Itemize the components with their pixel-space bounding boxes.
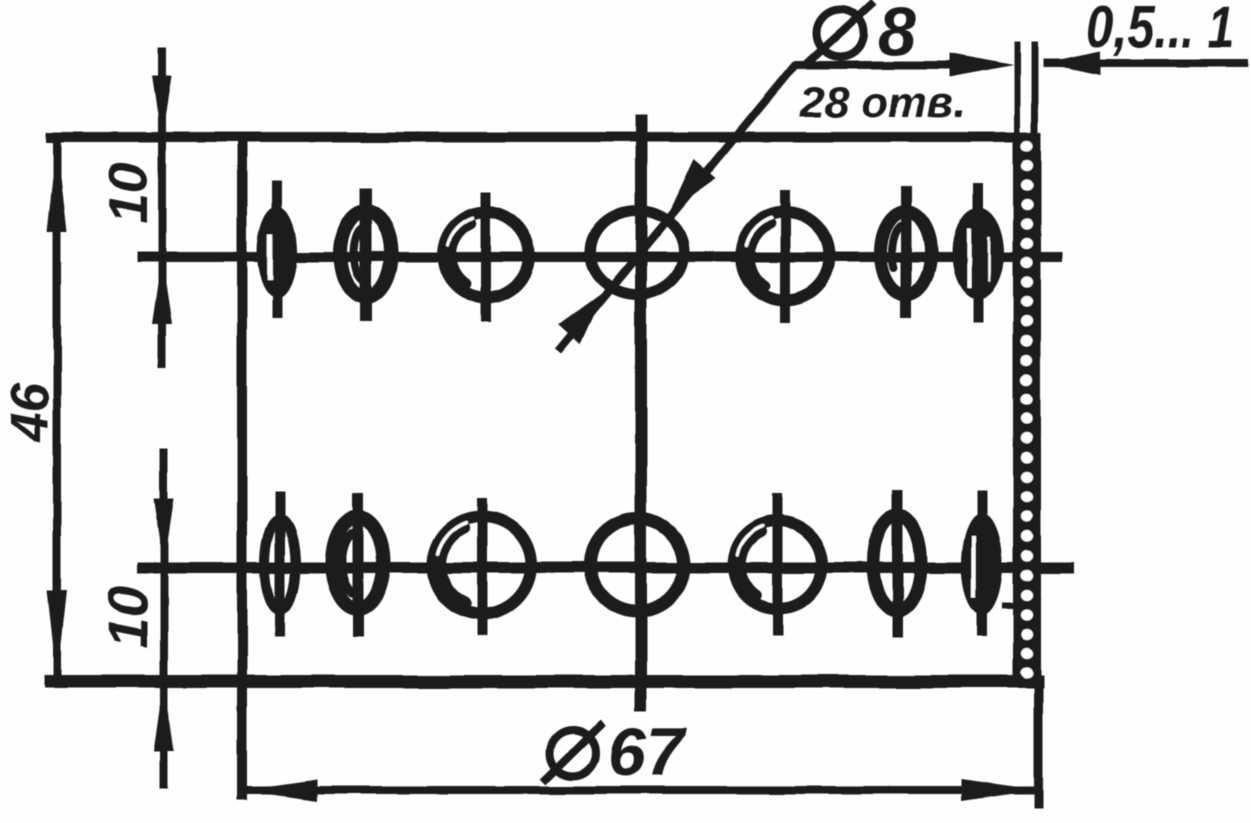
hole R1-1 narrow dark ellipse <box>257 206 297 298</box>
dimension 10 bottom arrow up <box>154 683 174 751</box>
leader diameter-8 upper arrow <box>670 159 716 211</box>
hole R1-5 inner-left crescent <box>749 223 770 285</box>
hole R2-3 vertical tick <box>477 497 487 636</box>
svg-text:67: 67 <box>608 714 687 790</box>
hole R1-6 inner-left crescent <box>892 226 901 268</box>
hole R1-2 vertical tick <box>360 188 372 322</box>
dimension diameter-67 arrow right <box>961 779 1039 801</box>
hole R2-3 circle <box>433 516 531 614</box>
hole R1-1 vertical tick <box>272 181 282 318</box>
hole R2-6 vertical tick <box>892 490 903 637</box>
hole R2-2 vertical tick <box>353 494 364 637</box>
leader diameter-8 lower arrow <box>558 292 604 345</box>
hole R2-5 circle <box>734 521 822 609</box>
dimension diameter-67 line <box>239 786 1039 794</box>
svg-text:28 отв.: 28 отв. <box>799 78 966 127</box>
svg-text:46: 46 <box>0 381 60 443</box>
dimension 0,5...1 right line <box>1043 59 1248 67</box>
hole R1-5 vertical tick <box>780 190 790 323</box>
dimension 10 bottom arrow down <box>154 499 174 566</box>
hole R1-2 ellipse <box>341 211 392 298</box>
dimension 10 top arrow up <box>152 256 172 324</box>
leader diameter-8 diagonal line <box>558 64 796 352</box>
leader diameter-8 horizontal line <box>794 61 959 69</box>
hole R2-2 inner-left crescent <box>342 533 353 593</box>
dimension 10 top line <box>158 48 166 368</box>
right wall section band with hatch ladder <box>1013 132 1041 688</box>
hole R1-6 vertical tick <box>901 186 912 318</box>
hole R1-7 narrow dark ellipse <box>952 207 1004 299</box>
plate bottom edge with left extension line <box>44 675 1044 688</box>
hole R2-2 ellipse <box>332 517 384 609</box>
label diameter symbol of 67 <box>543 723 603 782</box>
hole R2-5 vertical tick <box>773 494 783 636</box>
hole R2-7 vertical tick <box>977 490 987 636</box>
row 2 centerline <box>137 562 1073 573</box>
hole R1-7 vertical tick <box>973 183 983 322</box>
dimension 46 arrow up <box>47 141 67 232</box>
hole R2-3 inner-left crescent <box>441 528 465 599</box>
svg-text:0,5... 1: 0,5... 1 <box>1087 0 1235 60</box>
stray hatch tick near wall <box>1002 602 1018 608</box>
dimension 46 arrow down <box>47 590 67 681</box>
wall extension line right above top edge <box>1031 42 1038 132</box>
dimension 10 top arrow down <box>152 76 172 141</box>
right extension line below bottom edge <box>1034 687 1043 808</box>
wall extension line left above top edge <box>1014 42 1020 132</box>
leader diameter-8 arrow right to wall <box>946 53 1014 77</box>
hole R1-6 ellipse <box>881 212 932 295</box>
hole R1-3 vertical tick <box>481 192 491 322</box>
hole R2-7 narrow dark ellipse <box>962 513 1003 615</box>
plate left edge extended down as extension line <box>237 132 247 800</box>
hole R1-5 circle <box>741 212 829 300</box>
hole R2-1 narrow ellipse <box>265 520 296 611</box>
hole R2-4 circle on main centerline <box>591 519 684 612</box>
hole R1-3 circle <box>443 212 529 298</box>
dimension 46 line <box>53 140 61 682</box>
hole R2-5 outer-left crescent <box>741 532 762 596</box>
dimension 10 bottom line <box>160 449 168 788</box>
dimension 0,5...1 arrow left <box>1043 51 1101 75</box>
label diameter symbol of 8 <box>806 2 874 64</box>
svg-text:8: 8 <box>878 0 916 70</box>
main vertical centerline <box>635 114 647 711</box>
svg-text:10: 10 <box>96 162 159 224</box>
dimension diameter-67 arrow left <box>239 779 317 801</box>
hole R1-4 circle on main centerline <box>590 210 684 294</box>
hole R1-3 inner-left crescent <box>451 223 471 283</box>
hole R2-1 vertical tick <box>275 492 285 637</box>
plate top edge with left extension line <box>46 132 1018 142</box>
row 1 centerline <box>137 252 1062 262</box>
hole R2-6 ellipse <box>873 515 921 611</box>
svg-text:10: 10 <box>96 586 159 648</box>
